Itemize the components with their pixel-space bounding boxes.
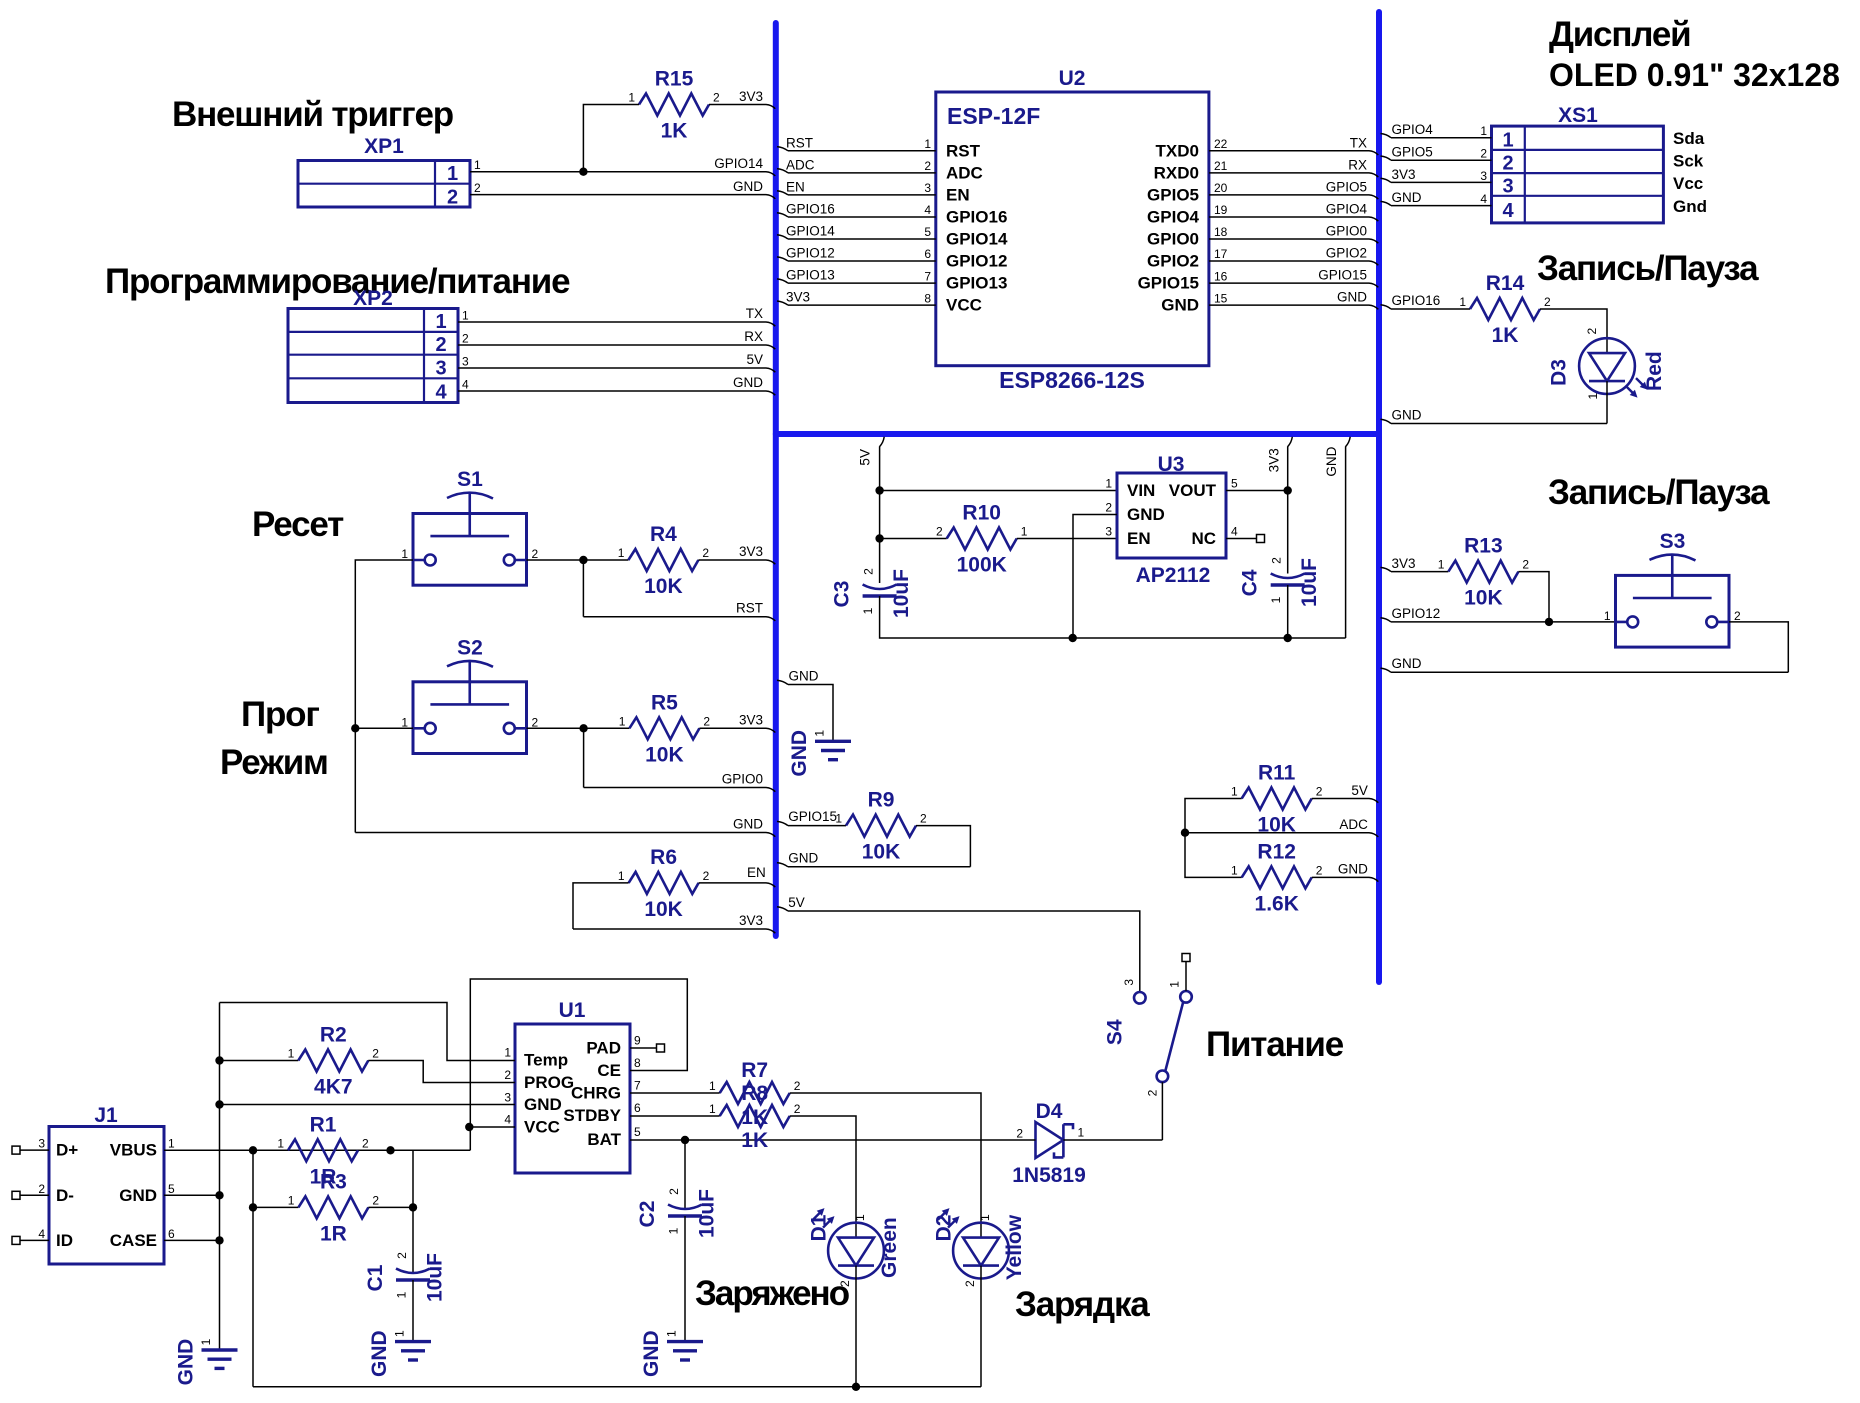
svg-text:R7: R7: [741, 1059, 768, 1082]
svg-text:1: 1: [1021, 525, 1028, 539]
svg-text:GND: GND: [640, 1330, 663, 1377]
wire R7 pin2 to D2 anode: [790, 1093, 981, 1238]
svg-text:2: 2: [1585, 327, 1599, 334]
wire XP2 pin to bus RX: [458, 345, 775, 349]
wire bus to U2 pin 6 (GPIO12): [777, 257, 936, 261]
wire U1 VCC: [469, 1126, 515, 1128]
wire U1 CE loop to VCC: [470, 979, 687, 1150]
resistor R14 1K: [1459, 272, 1551, 347]
svg-text:8: 8: [634, 1056, 641, 1070]
svg-text:VBUS: VBUS: [110, 1141, 157, 1160]
svg-text:EN: EN: [747, 865, 766, 880]
svg-text:10K: 10K: [1464, 587, 1503, 610]
svg-text:15: 15: [1214, 291, 1228, 305]
wire D1 cathode to bottom rail: [855, 1266, 857, 1387]
U2 pin 17 GPIO2: [1147, 247, 1228, 270]
svg-text:4: 4: [924, 203, 931, 217]
LED D1 Green: [807, 1208, 901, 1287]
svg-text:Режим: Режим: [220, 743, 328, 782]
wire GND drop from horizontal bus to rail: [1346, 437, 1351, 638]
wire U2 pin 16 to bus (GPIO15): [1209, 283, 1378, 287]
wire R11 pin1 rail down to R12: [1185, 799, 1242, 878]
U2 pin 4 GPIO16: [924, 203, 1007, 226]
wire S2 output down to bus GPIO0: [583, 728, 585, 787]
svg-text:20: 20: [1214, 181, 1228, 195]
resistor R15 1K: [628, 68, 720, 143]
wire R3 pin1: [253, 1206, 298, 1208]
wire 5V drop from horizontal bus: [880, 437, 885, 583]
svg-text:6: 6: [634, 1101, 641, 1115]
svg-text:GND: GND: [119, 1186, 157, 1205]
svg-text:2: 2: [1146, 1089, 1160, 1096]
wire S2 pin2 to R5: [527, 727, 630, 729]
junction: [579, 168, 587, 176]
svg-text:R8: R8: [741, 1082, 768, 1105]
junction: [215, 1100, 223, 1108]
wire XP1 pin1 to bus GPIO14: [470, 172, 775, 176]
svg-text:GND: GND: [175, 1339, 198, 1386]
svg-text:VCC: VCC: [524, 1118, 560, 1137]
svg-text:1: 1: [1231, 863, 1238, 877]
svg-text:GND: GND: [1392, 656, 1422, 671]
ground: [640, 1330, 703, 1377]
wire U2 pin 18 to bus (GPIO0): [1209, 239, 1378, 243]
svg-text:U2: U2: [1059, 67, 1086, 90]
svg-text:U3: U3: [1158, 453, 1185, 476]
wire S1 pin2 to R4: [527, 559, 629, 561]
terminal: [657, 1044, 665, 1052]
svg-text:GPIO2: GPIO2: [1147, 252, 1199, 271]
svg-text:RXD0: RXD0: [1154, 163, 1199, 182]
svg-text:2: 2: [794, 1102, 801, 1116]
U2 pin 18 GPIO0: [1147, 225, 1228, 248]
wire U2 pin 19 to bus (GPIO4): [1209, 217, 1378, 221]
svg-text:Red: Red: [1643, 351, 1666, 391]
svg-text:GND: GND: [733, 179, 763, 194]
svg-text:10uF: 10uF: [424, 1253, 447, 1302]
svg-text:3: 3: [504, 1091, 511, 1105]
svg-text:ESP8266-12S: ESP8266-12S: [999, 367, 1145, 393]
svg-text:GPIO14: GPIO14: [714, 156, 763, 171]
svg-text:Дисплей: Дисплей: [1549, 15, 1690, 54]
capacitor C1 10uF: [364, 1252, 447, 1302]
terminal: [1257, 535, 1265, 543]
wire U1 GND row: [220, 1104, 516, 1106]
svg-text:1: 1: [1231, 785, 1238, 799]
wire R11 pin2 to bus 5V: [1312, 799, 1379, 803]
wire XP2 pin to bus 5V: [458, 368, 775, 372]
svg-text:ADC: ADC: [946, 163, 983, 182]
svg-text:2: 2: [963, 1280, 977, 1287]
resistor R8 1K: [709, 1082, 801, 1152]
svg-text:6: 6: [168, 1227, 175, 1241]
svg-text:GPIO16: GPIO16: [786, 201, 835, 216]
wire bus 5V to switch S4: [777, 907, 1140, 992]
resistor R13 10K: [1438, 535, 1530, 610]
svg-text:4K7: 4K7: [314, 1076, 353, 1099]
pushbutton S1: [401, 468, 538, 585]
svg-text:2: 2: [703, 714, 710, 728]
resistor R11 10K: [1231, 762, 1323, 837]
svg-text:3V3: 3V3: [739, 713, 763, 728]
wire bus GPIO12 to S3 pin1: [1381, 618, 1616, 622]
svg-text:1: 1: [618, 869, 625, 883]
svg-text:3: 3: [1480, 169, 1487, 183]
wire bus to U2 pin 4 (GPIO16): [777, 213, 936, 217]
wire C3 pin1 to ground rail: [880, 596, 1346, 638]
svg-text:6: 6: [924, 247, 931, 261]
svg-text:1R: 1R: [320, 1222, 347, 1245]
resistor R4 10K: [618, 523, 710, 598]
wire J1 left pin 2: [20, 1194, 49, 1196]
pushbutton S2: [401, 636, 538, 753]
svg-text:R6: R6: [650, 846, 677, 869]
junction: [465, 1123, 473, 1131]
svg-text:CASE: CASE: [110, 1231, 157, 1250]
svg-text:R10: R10: [962, 502, 1001, 525]
svg-text:2: 2: [1480, 147, 1487, 161]
svg-text:EN: EN: [786, 179, 805, 194]
wire GND rail vertical: [219, 1003, 221, 1351]
svg-text:PROG: PROG: [524, 1073, 574, 1092]
wire C1 column: [412, 1150, 414, 1273]
junction: [249, 1203, 257, 1211]
svg-text:STDBY: STDBY: [563, 1106, 621, 1125]
svg-text:GPIO16: GPIO16: [946, 208, 1007, 227]
svg-text:R2: R2: [320, 1024, 347, 1047]
wire D4 cathode to S4 pin2: [1063, 1139, 1162, 1141]
capacitor C3 10uF: [831, 568, 914, 618]
svg-text:R9: R9: [868, 789, 895, 812]
svg-text:10K: 10K: [862, 841, 901, 864]
svg-text:1: 1: [1604, 609, 1611, 623]
svg-text:D+: D+: [56, 1141, 78, 1160]
wire R2 pin1 from GND rail: [220, 1060, 299, 1062]
svg-text:TX: TX: [1350, 135, 1367, 150]
svg-text:1: 1: [618, 546, 625, 560]
svg-text:2: 2: [703, 869, 710, 883]
svg-text:Sck: Sck: [1673, 152, 1704, 171]
wire R9 pin2 down to bus GND: [916, 826, 970, 867]
junction: [875, 534, 883, 542]
svg-text:GPIO16: GPIO16: [1392, 293, 1441, 308]
junction: [1284, 634, 1292, 642]
wire ADC tap to bus: [1185, 833, 1378, 837]
svg-text:1: 1: [1269, 596, 1283, 603]
svg-text:2: 2: [838, 1280, 852, 1287]
svg-text:GPIO15: GPIO15: [1138, 274, 1199, 293]
svg-text:5: 5: [168, 1182, 175, 1196]
svg-text:10uF: 10uF: [696, 1189, 719, 1238]
svg-text:VCC: VCC: [946, 296, 982, 315]
wire bus to U2 pin 3 (EN): [777, 191, 936, 195]
wire R2 pin2 to U1 PROG: [368, 1061, 515, 1083]
wire R15 pin1 lead and drop to XP1 pin1 wire: [583, 105, 639, 172]
svg-text:GND: GND: [733, 375, 763, 390]
svg-text:2: 2: [462, 332, 469, 346]
wire bus to U2 pin 7 (GPIO13): [777, 279, 936, 283]
svg-text:GND: GND: [1392, 408, 1422, 423]
connector XP2: [288, 287, 458, 404]
svg-text:1: 1: [395, 1291, 409, 1298]
svg-text:4: 4: [1231, 525, 1238, 539]
wire bus to U2 pin 2 (ADC): [777, 169, 936, 173]
wire bus to XS1 pin 4 (GND): [1381, 201, 1492, 205]
wire J1 left pin 4: [20, 1239, 49, 1241]
svg-text:1: 1: [835, 812, 842, 826]
U2 pin 6 GPIO12: [924, 247, 1007, 270]
capacitor C4 10uF: [1239, 557, 1322, 607]
LED D2 Yellow: [932, 1208, 1026, 1287]
svg-text:Green: Green: [878, 1217, 901, 1278]
svg-text:OLED 0.91" 32x128: OLED 0.91" 32x128: [1549, 57, 1840, 93]
svg-text:GND: GND: [524, 1095, 562, 1114]
junction: [1069, 634, 1077, 642]
svg-text:4: 4: [38, 1227, 45, 1241]
svg-text:ESP-12F: ESP-12F: [947, 103, 1040, 129]
wire R15 pin2 to bus 3V3: [709, 105, 775, 109]
wire S1 output down to bus RST: [582, 560, 584, 617]
svg-text:1N5819: 1N5819: [1012, 1164, 1086, 1187]
wire D2 cathode to bottom rail: [980, 1266, 982, 1387]
wire R3 pin2 to C1 column: [368, 1206, 413, 1208]
svg-text:GPIO12: GPIO12: [946, 252, 1007, 271]
resistor R12 1.6K: [1231, 840, 1323, 915]
svg-text:2: 2: [920, 812, 927, 826]
wire U2 pin 20 to bus (GPIO5): [1209, 195, 1378, 199]
capacitor C2 10uF: [636, 1188, 719, 1238]
svg-text:ID: ID: [56, 1231, 73, 1250]
svg-text:5V: 5V: [1351, 783, 1368, 798]
svg-text:CHRG: CHRG: [571, 1084, 621, 1103]
junction: [249, 1146, 257, 1154]
junction: [386, 1146, 394, 1154]
svg-text:2: 2: [1316, 785, 1323, 799]
wire R13 pin2 down to GPIO12 wire: [1518, 572, 1549, 622]
wire U2 pin 22 to bus (TX): [1209, 151, 1378, 155]
svg-text:Temp: Temp: [524, 1051, 568, 1070]
svg-text:Vcc: Vcc: [1673, 174, 1703, 193]
svg-text:GPIO15: GPIO15: [788, 809, 837, 824]
IC U3 AP2112 body: [1117, 453, 1226, 587]
wire battery rail vertical: [252, 1150, 254, 1387]
svg-text:1: 1: [813, 730, 827, 737]
svg-text:2: 2: [1734, 609, 1741, 623]
svg-text:1K: 1K: [1492, 324, 1519, 347]
svg-text:10K: 10K: [644, 575, 683, 598]
svg-text:GPIO2: GPIO2: [1326, 246, 1367, 261]
svg-text:PAD: PAD: [586, 1039, 621, 1058]
wire bus to R14 (GPIO16): [1381, 305, 1471, 309]
wire bus GPIO15 to R9: [777, 821, 846, 825]
svg-text:Gnd: Gnd: [1673, 197, 1707, 216]
svg-text:2: 2: [1502, 153, 1513, 175]
svg-text:1: 1: [1438, 558, 1445, 572]
svg-text:10uF: 10uF: [1298, 558, 1321, 607]
svg-text:VOUT: VOUT: [1169, 481, 1217, 500]
wire J1 left pin 3: [20, 1149, 49, 1151]
svg-text:1: 1: [628, 91, 635, 105]
svg-text:5V: 5V: [788, 895, 805, 910]
svg-text:1: 1: [277, 1136, 284, 1150]
svg-text:C3: C3: [831, 581, 854, 608]
svg-text:4: 4: [1480, 192, 1487, 206]
svg-text:2: 2: [1544, 295, 1551, 309]
wire bus to XS1 pin 3 (3V3): [1381, 178, 1492, 182]
wire R14 pin2 to LED D3 anode: [1540, 309, 1607, 353]
resistor R7 1K: [709, 1059, 801, 1129]
svg-text:9: 9: [634, 1034, 641, 1048]
U2 pin 20 GPIO5: [1147, 181, 1228, 204]
svg-text:S4: S4: [1104, 1019, 1127, 1045]
wire J1 pin 5 to GND rail: [164, 1194, 220, 1196]
U2 pin 16 GPIO15: [1138, 269, 1228, 292]
terminal: [12, 1236, 20, 1244]
svg-text:21: 21: [1214, 159, 1228, 173]
svg-text:GND: GND: [788, 730, 811, 777]
U2 pin 3 EN: [924, 181, 969, 204]
resistor R6 10K: [618, 846, 710, 921]
svg-text:1: 1: [288, 1193, 295, 1207]
svg-text:2: 2: [713, 91, 720, 105]
svg-text:3: 3: [435, 358, 446, 380]
wire S3 pin2 to bus GND: [1729, 622, 1788, 672]
power bus vertical left: [773, 23, 779, 936]
svg-text:2: 2: [862, 568, 876, 575]
resistor R3 1R: [288, 1170, 380, 1245]
svg-text:100K: 100K: [957, 554, 1007, 577]
U2 pin 15 GND: [1161, 291, 1227, 314]
wire R8 pin2 to D1 anode: [790, 1116, 856, 1238]
svg-text:S3: S3: [1660, 530, 1686, 553]
svg-text:4: 4: [504, 1113, 511, 1127]
U2 pin 21 RXD0: [1154, 159, 1228, 182]
svg-text:Заряжено: Заряжено: [695, 1274, 850, 1313]
svg-text:GND: GND: [1337, 290, 1367, 305]
wire U2 pin 17 to bus (GPIO2): [1209, 261, 1378, 265]
svg-text:RX: RX: [744, 329, 763, 344]
svg-text:RST: RST: [786, 135, 813, 150]
terminal: [12, 1146, 20, 1154]
svg-text:Внешний триггер: Внешний триггер: [172, 95, 453, 134]
junction: [215, 1191, 223, 1199]
svg-text:GPIO4: GPIO4: [1326, 201, 1368, 216]
svg-text:XS1: XS1: [1558, 104, 1598, 127]
svg-text:R12: R12: [1257, 840, 1296, 863]
svg-text:1: 1: [393, 1330, 407, 1337]
switch S4: [1104, 979, 1192, 1097]
wire R12 pin2 to bus GND: [1312, 877, 1379, 881]
svg-text:10K: 10K: [645, 743, 684, 766]
wire S4 pin1 to open terminal: [1185, 962, 1187, 991]
svg-text:22: 22: [1214, 137, 1228, 151]
terminal: [1182, 954, 1190, 962]
svg-text:3V3: 3V3: [1392, 556, 1416, 571]
connector XS1 display header: [1492, 104, 1664, 223]
wire U3 GND pin down to ground rail: [1073, 515, 1117, 639]
svg-text:J1: J1: [94, 1104, 118, 1127]
connector XP1: [298, 135, 470, 209]
wire C2 to ground: [684, 1216, 686, 1342]
svg-text:7: 7: [634, 1079, 641, 1093]
svg-text:AP2112: AP2112: [1136, 564, 1211, 587]
svg-text:8: 8: [924, 291, 931, 305]
svg-text:1: 1: [619, 714, 626, 728]
U2 pin 8 VCC: [924, 291, 982, 314]
svg-text:1: 1: [667, 1227, 681, 1234]
svg-text:GPIO13: GPIO13: [946, 274, 1007, 293]
wire XP2 pin to bus TX: [458, 322, 775, 326]
svg-text:ADC: ADC: [786, 157, 815, 172]
svg-text:D1: D1: [807, 1214, 830, 1241]
U2 pin 5 GPIO14: [924, 225, 1008, 248]
U2 pin 19 GPIO4: [1147, 203, 1228, 226]
svg-text:1: 1: [288, 1047, 295, 1061]
svg-text:4: 4: [1502, 200, 1514, 222]
svg-text:1: 1: [861, 607, 875, 614]
svg-text:GND: GND: [789, 669, 819, 684]
svg-text:EN: EN: [946, 185, 970, 204]
svg-text:GND: GND: [1127, 505, 1165, 524]
svg-text:ADC: ADC: [1339, 817, 1368, 832]
svg-text:GND: GND: [1324, 446, 1339, 476]
svg-text:1: 1: [504, 1046, 511, 1060]
resistor R10 100K: [936, 502, 1028, 577]
wire U3 NC pin to open terminal: [1226, 538, 1257, 540]
svg-text:1: 1: [853, 1214, 867, 1221]
svg-text:2: 2: [1522, 558, 1529, 572]
svg-text:3: 3: [1122, 979, 1136, 986]
svg-text:1: 1: [709, 1079, 716, 1093]
svg-text:VIN: VIN: [1127, 481, 1155, 500]
svg-text:GPIO0: GPIO0: [1147, 230, 1199, 249]
svg-text:1: 1: [435, 311, 446, 333]
wire 3V3 drop from horizontal bus to VOUT: [1288, 437, 1293, 574]
svg-text:2: 2: [474, 181, 481, 195]
svg-text:1: 1: [978, 1214, 992, 1221]
svg-text:Sda: Sda: [1673, 129, 1705, 148]
svg-text:D2: D2: [932, 1215, 955, 1242]
svg-text:NC: NC: [1191, 529, 1216, 548]
wire VOUT to 3V3 column: [1226, 490, 1288, 492]
wire U2 pin 15 to bus (GND): [1209, 305, 1378, 309]
svg-text:RX: RX: [1348, 157, 1367, 172]
svg-text:2: 2: [395, 1252, 409, 1259]
svg-text:1: 1: [1480, 124, 1487, 138]
svg-text:2: 2: [1016, 1127, 1023, 1141]
svg-text:2: 2: [1270, 557, 1284, 564]
wire C1 to ground: [412, 1280, 414, 1342]
svg-text:3V3: 3V3: [739, 913, 763, 928]
IC U1 charger body: [515, 999, 630, 1173]
svg-text:TXD0: TXD0: [1156, 141, 1199, 160]
svg-text:GPIO0: GPIO0: [1326, 224, 1367, 239]
svg-text:1K: 1K: [661, 120, 688, 143]
wire left rail to S2 pin1: [355, 727, 413, 729]
svg-text:7: 7: [924, 269, 931, 283]
svg-text:3: 3: [462, 355, 469, 369]
svg-text:1: 1: [1168, 981, 1182, 988]
svg-text:R11: R11: [1258, 762, 1296, 785]
svg-text:3V3: 3V3: [786, 290, 810, 305]
svg-text:Yellow: Yellow: [1003, 1214, 1026, 1280]
svg-text:2: 2: [38, 1182, 45, 1196]
resistor R1 1R: [277, 1113, 369, 1188]
svg-text:1: 1: [1078, 1126, 1085, 1140]
svg-text:3V3: 3V3: [1266, 448, 1281, 472]
svg-text:3: 3: [1105, 525, 1112, 539]
svg-text:RST: RST: [736, 601, 763, 616]
